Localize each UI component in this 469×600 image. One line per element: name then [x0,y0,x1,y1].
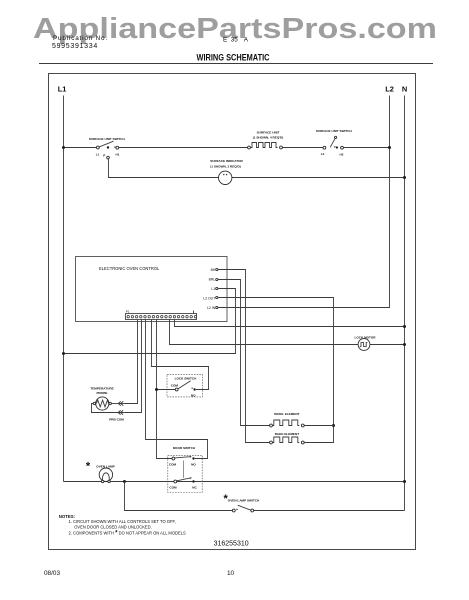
wire switch H1 to surface unit element [119,147,248,149]
door switch S5 [168,446,202,493]
title underline [39,63,433,65]
broil element [270,412,334,427]
wire S2 to L2 bus [343,147,389,149]
svg-text:P1: P1 [126,310,130,314]
svg-text:L1: L1 [58,85,67,94]
wire strip pin to lock COM and door COM [157,320,173,459]
oven lamp DS1 [86,461,115,483]
svg-text:BRL: BRL [209,278,216,282]
surface unit element [248,130,284,149]
wire BRL pin to broil element [218,280,270,426]
wire strip pin to N bus [175,320,405,327]
svg-text:PROBE: PROBE [96,391,107,395]
svg-text:SURFACE INDICATOR: SURFACE INDICATOR [210,159,243,163]
surface unit switch S2 [316,129,353,157]
pin L1 [211,287,217,291]
svg-text:SURFACE UNIT: SURFACE UNIT [257,130,280,134]
junction L1 bus surface row [62,146,65,149]
surface unit switch S1 [89,137,126,159]
wire P terminal down to indicator line [109,159,219,178]
svg-text:P: P [103,154,105,158]
svg-text:BAKE ELEMENT: BAKE ELEMENT [275,432,300,436]
junction N bus indicator line [403,176,406,179]
wire strip pin to probe top [125,320,138,404]
pin L2 OUT [203,296,218,300]
svg-text:35: 35 [231,37,239,44]
wire BK pin to bake element [218,270,270,443]
svg-text:H2: H2 [340,153,344,157]
wire L2 bus [218,96,390,308]
lock switch S3 [167,374,202,397]
svg-text:COM: COM [169,463,177,467]
junction N bus control line [403,325,406,328]
svg-text:BROIL ELEMENT: BROIL ELEMENT [274,412,299,416]
wire indicator line to N bus [219,177,405,179]
svg-text:(1 SHOWN, 2 REQ'D): (1 SHOWN, 2 REQ'D) [210,164,240,168]
svg-text:WIRING SCHEMATIC: WIRING SCHEMATIC [197,53,270,63]
svg-text:316255310: 316255310 [214,541,249,548]
connector strip P1 [126,310,197,320]
surface indicator lamp [210,159,243,185]
wire probe top lead with connector [111,401,125,405]
svg-text:TEMPERATURE: TEMPERATURE [90,387,113,391]
svg-text:Publication No.: Publication No. [53,35,108,42]
svg-text:L2 OUT: L2 OUT [203,296,215,300]
wire probe return lead with connector [92,404,125,415]
svg-text:N: N [402,85,407,94]
wire drop to oven lamp switch line [125,482,233,511]
wire L2 OUT pin to elements [218,298,334,443]
svg-text:H1: H1 [116,153,120,157]
junction L1 bus control line [62,352,65,355]
svg-text:L2: L2 [385,85,394,94]
svg-text:SURFACE UNIT SWITCH: SURFACE UNIT SWITCH [89,137,126,141]
svg-text:(1 SHOWN, 4 REQ'D): (1 SHOWN, 4 REQ'D) [253,136,283,140]
wire oven lamp line L1 to N [64,481,405,483]
junction L2 bus surface row [388,146,391,149]
svg-text:L2: L2 [321,152,325,156]
pin BK [211,268,218,272]
svg-text:ELECTRONIC OVEN CONTROL: ELECTRONIC OVEN CONTROL [99,266,160,271]
svg-text:E: E [223,37,227,44]
junction N bus lock motor line [403,343,406,346]
wire N bus [404,96,406,511]
electronic oven control U1 [76,257,228,322]
temperature probe RT1 [90,387,124,422]
junction lock COM line [155,388,158,391]
svg-text:SURFACE UNIT SWITCH: SURFACE UNIT SWITCH [316,129,353,133]
svg-text:L2 IN: L2 IN [207,306,216,310]
svg-text:NO: NO [191,393,196,397]
junction lamp line to lamp switch drop [123,480,126,483]
svg-text:LOCK SWITCH: LOCK SWITCH [175,376,198,380]
svg-text:08/03: 08/03 [44,570,60,577]
svg-text:*: * [86,461,91,473]
bake element [270,432,305,444]
wire L1 to surface unit switch [64,147,97,149]
junction N bus lamp line [403,480,406,483]
svg-text:L1: L1 [211,287,215,291]
svg-text:L1: L1 [96,153,100,157]
wire L1 pin to L1 bus [64,289,236,354]
svg-text:COM: COM [171,384,179,388]
svg-text:OVEN DOOR CLOSED AND UNLOCKED.: OVEN DOOR CLOSED AND UNLOCKED. [74,525,152,530]
notes block [59,514,186,537]
svg-text:NO: NO [191,463,196,467]
svg-text:PRB COM: PRB COM [109,417,124,421]
svg-text:1. CIRCUIT SHOWN WITH ALL CON: 1. CIRCUIT SHOWN WITH ALL CONTROLS SET T… [69,519,176,524]
wire strip pin to lock motor [170,320,405,345]
svg-text:5995391334: 5995391334 [52,43,98,50]
svg-text:NC: NC [192,486,197,490]
wire oven lamp switch to N bus [254,510,405,512]
wire element to surface unit switch S2 [282,147,323,149]
pin L2 IN [207,306,218,310]
wire strip pin to door switch NO [146,320,208,459]
wire strip pin to lock switch NO [152,320,209,390]
wire L1 bus [63,96,65,482]
svg-text:COM: COM [169,486,177,490]
lock motor M1 [354,336,376,351]
wire lock COM branch [157,389,176,391]
svg-text:OVEN LAMP SWITCH: OVEN LAMP SWITCH [228,499,260,503]
schematic border frame [49,74,416,550]
pin BRL [209,278,218,282]
svg-text:10: 10 [227,570,235,577]
oven lamp switch S4 [223,493,259,512]
svg-text:BK: BK [211,268,216,272]
svg-text:DOOR SWITCH: DOOR SWITCH [173,446,196,450]
junction broil right on L2 OUT line [332,424,335,427]
wire strip pin to probe return [125,320,142,413]
